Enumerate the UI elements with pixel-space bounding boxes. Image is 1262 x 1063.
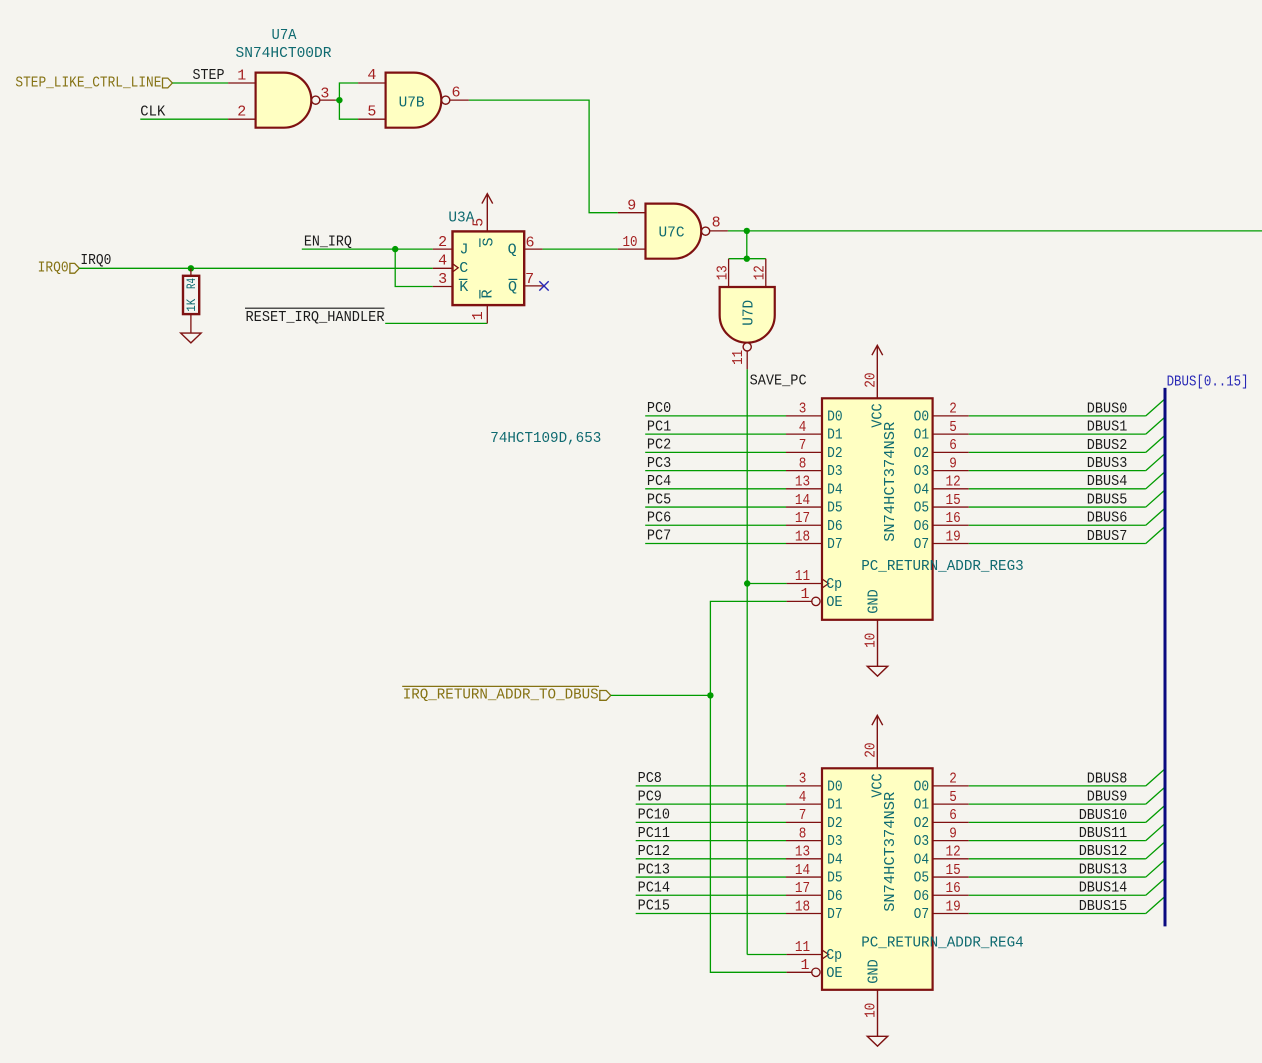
svg-text:O3: O3 xyxy=(914,833,930,850)
svg-text:O2: O2 xyxy=(914,815,930,832)
pin 11 of U7D xyxy=(746,351,748,369)
svg-text:13: 13 xyxy=(795,474,810,491)
pin 10 GND of PC_RETURN_ADDR_REG3 xyxy=(877,620,879,667)
svg-text:D3: D3 xyxy=(827,463,843,480)
svg-text:74HCT109D,653: 74HCT109D,653 xyxy=(490,430,601,447)
bus entry DBUS7 xyxy=(1146,527,1164,543)
svg-text:PC12: PC12 xyxy=(638,843,670,860)
bus entry DBUS1 xyxy=(1146,418,1164,434)
svg-text:O0: O0 xyxy=(914,409,930,426)
svg-text:3: 3 xyxy=(320,85,329,102)
svg-text:D1: D1 xyxy=(827,797,843,814)
svg-text:20: 20 xyxy=(863,743,880,758)
svg-text:D3: D3 xyxy=(827,833,843,850)
svg-text:6: 6 xyxy=(452,85,461,102)
svg-text:DBUS4: DBUS4 xyxy=(1087,473,1128,490)
svg-text:D1: D1 xyxy=(827,427,843,444)
wire U7D input bracket xyxy=(729,258,766,260)
wire DBUS13 xyxy=(969,876,1146,878)
wire DBUS2 xyxy=(969,451,1146,453)
svg-text:D4: D4 xyxy=(827,851,843,868)
wire Q to U7C pin 10 xyxy=(543,248,618,250)
svg-text:15: 15 xyxy=(946,862,961,879)
svg-text:RESET_IRQ_HANDLER: RESET_IRQ_HANDLER xyxy=(246,309,385,326)
svg-text:19: 19 xyxy=(946,898,961,915)
svg-text:PC_RETURN_ADDR_REG4: PC_RETURN_ADDR_REG4 xyxy=(861,934,1024,951)
pin 2 O0 of PC_RETURN_ADDR_REG3 xyxy=(933,415,969,417)
pin 5 O1 of PC_RETURN_ADDR_REG4 xyxy=(933,803,969,805)
svg-text:DBUS[0..15]: DBUS[0..15] xyxy=(1167,373,1249,390)
nand gate U7A xyxy=(256,73,312,128)
pin 4 D1 of PC_RETURN_ADDR_REG4 xyxy=(786,803,822,805)
pin 3 D0 of PC_RETURN_ADDR_REG4 xyxy=(786,785,822,787)
pin 7 Qbar of U3A xyxy=(524,285,542,287)
wire PC12 xyxy=(636,858,786,860)
svg-text:PC6: PC6 xyxy=(647,509,671,526)
pin 9 O3 of PC_RETURN_ADDR_REG3 xyxy=(933,470,969,472)
wire OE branch up to reg3 xyxy=(710,601,786,695)
wire DBUS14 xyxy=(969,894,1146,896)
pin 7 D2 of PC_RETURN_ADDR_REG4 xyxy=(786,821,822,823)
pin 2 O0 of PC_RETURN_ADDR_REG4 xyxy=(933,785,969,787)
svg-text:9: 9 xyxy=(627,198,636,215)
wire DBUS0 xyxy=(969,415,1146,417)
svg-text:DBUS3: DBUS3 xyxy=(1087,455,1128,472)
wire IRQ0 to pin C xyxy=(79,267,433,269)
svg-text:SAVE_PC: SAVE_PC xyxy=(750,372,807,389)
svg-text:4: 4 xyxy=(438,253,447,270)
svg-text:PC15: PC15 xyxy=(638,898,670,915)
wire DBUS8 xyxy=(969,785,1146,787)
junction U7D inputs xyxy=(744,256,750,262)
svg-text:Cp: Cp xyxy=(826,576,842,593)
svg-text:7: 7 xyxy=(525,271,534,288)
svg-text:PC5: PC5 xyxy=(647,491,671,508)
junction IRQ0 R4 xyxy=(188,265,194,271)
wire DBUS11 xyxy=(969,840,1146,842)
wire DBUS1 xyxy=(969,433,1146,435)
pin 16 O6 of PC_RETURN_ADDR_REG3 xyxy=(933,524,969,526)
pin 1 OE of PC_RETURN_ADDR_REG4 xyxy=(787,971,813,973)
svg-text:6: 6 xyxy=(525,234,534,251)
pin 9 of U7C xyxy=(618,212,646,214)
svg-text:1K: 1K xyxy=(184,299,199,312)
svg-text:GND: GND xyxy=(866,959,883,984)
pin 2 of U7A xyxy=(228,118,256,120)
svg-text:Cp: Cp xyxy=(826,947,842,964)
svg-text:13: 13 xyxy=(714,265,731,280)
svg-text:3: 3 xyxy=(799,401,807,418)
wire DBUS7 xyxy=(969,543,1146,545)
svg-text:O2: O2 xyxy=(914,445,930,462)
svg-text:11: 11 xyxy=(795,568,810,585)
pin 18 D7 of PC_RETURN_ADDR_REG4 xyxy=(786,913,822,915)
junction EN_IRQ xyxy=(392,246,398,252)
svg-text:1: 1 xyxy=(800,957,809,974)
svg-text:OE: OE xyxy=(826,594,843,611)
svg-text:IRQ0: IRQ0 xyxy=(80,252,111,269)
bus entry DBUS10 xyxy=(1146,806,1164,822)
wire to U7B pin 5 xyxy=(339,100,358,119)
svg-text:EN_IRQ: EN_IRQ xyxy=(304,234,352,251)
svg-text:J: J xyxy=(460,241,469,258)
wire PC5 xyxy=(645,506,786,508)
pin 4 C of U3A xyxy=(433,267,453,269)
svg-text:O5: O5 xyxy=(914,870,930,887)
wire EN_IRQ branch to pin K xyxy=(395,249,433,286)
pin 4 D1 of PC_RETURN_ADDR_REG3 xyxy=(786,433,822,435)
svg-text:D0: D0 xyxy=(827,779,843,796)
wire DBUS5 xyxy=(969,506,1146,508)
bus entry DBUS13 xyxy=(1146,861,1164,877)
wire EN_IRQ xyxy=(302,248,433,250)
svg-text:12: 12 xyxy=(946,844,961,861)
pin 2 J of U3A xyxy=(433,248,453,250)
wire IRQ_RETURN_ADDR_TO_DBUS xyxy=(611,694,711,696)
svg-text:2: 2 xyxy=(438,234,447,251)
pin 10 GND of PC_RETURN_ADDR_REG4 xyxy=(877,990,879,1037)
bus entry DBUS11 xyxy=(1146,824,1164,840)
svg-text:DBUS13: DBUS13 xyxy=(1079,861,1128,878)
pin 8 D3 of PC_RETURN_ADDR_REG3 xyxy=(786,470,822,472)
svg-text:D7: D7 xyxy=(827,536,843,553)
svg-text:17: 17 xyxy=(795,510,810,527)
pin 20 VCC of PC_RETURN_ADDR_REG3 xyxy=(872,345,883,398)
svg-text:PC1: PC1 xyxy=(647,418,671,435)
svg-text:12: 12 xyxy=(946,474,961,491)
svg-text:U7D: U7D xyxy=(741,300,758,326)
svg-text:14: 14 xyxy=(795,862,810,879)
pin 12 O4 of PC_RETURN_ADDR_REG4 xyxy=(933,858,969,860)
bus entry DBUS8 xyxy=(1146,770,1164,786)
svg-text:14: 14 xyxy=(795,492,810,509)
pin 20 VCC of PC_RETURN_ADDR_REG4 xyxy=(872,715,883,768)
svg-text:U7C: U7C xyxy=(659,224,685,241)
pin 17 D6 of PC_RETURN_ADDR_REG4 xyxy=(786,894,822,896)
pin 14 D5 of PC_RETURN_ADDR_REG4 xyxy=(786,876,822,878)
svg-text:15: 15 xyxy=(946,492,961,509)
svg-text:R: R xyxy=(480,289,497,298)
svg-text:VCC: VCC xyxy=(869,403,886,428)
svg-text:10: 10 xyxy=(623,234,638,251)
svg-text:SN74HCT00DR: SN74HCT00DR xyxy=(236,45,332,62)
svg-text:Q: Q xyxy=(508,241,517,258)
pin 18 D7 of PC_RETURN_ADDR_REG3 xyxy=(786,543,822,545)
wire PC6 xyxy=(645,524,786,526)
nand gate U7B xyxy=(386,73,442,128)
bus entry DBUS0 xyxy=(1146,400,1164,416)
svg-text:17: 17 xyxy=(795,880,810,897)
svg-text:O4: O4 xyxy=(914,481,930,498)
wire PC7 xyxy=(645,543,786,545)
bus entry DBUS6 xyxy=(1146,509,1164,525)
svg-text:10: 10 xyxy=(863,633,880,648)
wire PC8 xyxy=(636,785,786,787)
svg-text:2: 2 xyxy=(949,771,957,788)
wire STEP xyxy=(172,82,228,84)
svg-text:PC14: PC14 xyxy=(638,879,670,896)
wire DBUS3 xyxy=(969,470,1146,472)
svg-text:VCC: VCC xyxy=(869,773,886,798)
svg-text:OE: OE xyxy=(826,965,843,982)
wire to reg4 Cp pin xyxy=(747,954,786,956)
svg-text:12: 12 xyxy=(752,265,769,280)
wire PC2 xyxy=(645,451,786,453)
svg-text:STEP: STEP xyxy=(193,67,225,84)
wire PC13 xyxy=(636,876,786,878)
svg-text:O6: O6 xyxy=(914,888,930,905)
svg-text:18: 18 xyxy=(795,528,810,545)
wire U7C output to right edge xyxy=(728,230,1262,232)
svg-text:D5: D5 xyxy=(827,870,843,887)
svg-text:IRQ_RETURN_ADDR_TO_DBUS: IRQ_RETURN_ADDR_TO_DBUS xyxy=(403,687,599,704)
svg-text:6: 6 xyxy=(949,807,957,824)
pin 6 O2 of PC_RETURN_ADDR_REG3 xyxy=(933,451,969,453)
pin 15 O5 of PC_RETURN_ADDR_REG3 xyxy=(933,506,969,508)
pin 8 of U7C xyxy=(710,230,728,232)
wire PC10 xyxy=(636,821,786,823)
nand gate U7D xyxy=(720,287,775,343)
pin 14 D5 of PC_RETURN_ADDR_REG3 xyxy=(786,506,822,508)
junction at reg3 Cp xyxy=(744,580,750,586)
svg-text:5: 5 xyxy=(949,419,957,436)
bus entry DBUS5 xyxy=(1146,491,1164,507)
wire PC4 xyxy=(645,488,786,490)
svg-text:8: 8 xyxy=(799,455,807,472)
wire PC11 xyxy=(636,840,786,842)
svg-text:D2: D2 xyxy=(827,445,843,462)
pin 13 D4 of PC_RETURN_ADDR_REG3 xyxy=(786,488,822,490)
junction U7C output xyxy=(744,228,750,234)
svg-text:3: 3 xyxy=(438,271,447,288)
wire U7A output xyxy=(336,99,340,101)
pin 4 of U7B xyxy=(358,82,386,84)
svg-text:13: 13 xyxy=(795,844,810,861)
pin 11 Cp of PC_RETURN_ADDR_REG3 xyxy=(787,583,822,585)
svg-text:DBUS5: DBUS5 xyxy=(1087,491,1128,508)
svg-text:STEP_LIKE_CTRL_LINE: STEP_LIKE_CTRL_LINE xyxy=(15,74,161,91)
svg-text:DBUS8: DBUS8 xyxy=(1087,770,1128,787)
svg-text:D6: D6 xyxy=(827,518,843,535)
svg-text:5: 5 xyxy=(367,103,376,120)
svg-text:8: 8 xyxy=(712,214,721,231)
pin 13 of U7D xyxy=(728,259,730,287)
svg-text:D2: D2 xyxy=(827,815,843,832)
wire DBUS12 xyxy=(969,858,1146,860)
pin 1 OE of PC_RETURN_ADDR_REG3 xyxy=(787,600,813,602)
junction U7A output xyxy=(336,97,342,103)
svg-text:D6: D6 xyxy=(827,888,843,905)
svg-text:DBUS14: DBUS14 xyxy=(1079,880,1128,897)
svg-text:9: 9 xyxy=(949,455,957,472)
svg-text:S: S xyxy=(480,237,497,246)
svg-text:1: 1 xyxy=(800,586,809,603)
svg-text:5: 5 xyxy=(471,218,488,227)
nand gate U7C xyxy=(646,204,702,259)
wire RESET_IRQ_HANDLER to pin 1 xyxy=(385,322,487,324)
svg-text:O1: O1 xyxy=(914,427,930,444)
bus entry DBUS3 xyxy=(1146,454,1164,470)
pin 6 of U7B xyxy=(450,99,469,101)
pin 16 O6 of PC_RETURN_ADDR_REG4 xyxy=(933,894,969,896)
pin 3 D0 of PC_RETURN_ADDR_REG3 xyxy=(786,415,822,417)
pin 11 Cp of PC_RETURN_ADDR_REG4 xyxy=(787,954,822,956)
pin 13 D4 of PC_RETURN_ADDR_REG4 xyxy=(786,858,822,860)
svg-text:O0: O0 xyxy=(914,779,930,796)
pin 5 S of U3A with VCC arrow xyxy=(482,194,493,232)
wire DBUS15 xyxy=(969,913,1146,915)
bus entry DBUS4 xyxy=(1146,472,1164,488)
svg-text:9: 9 xyxy=(949,825,957,842)
pin 6 O2 of PC_RETURN_ADDR_REG4 xyxy=(933,821,969,823)
svg-text:3: 3 xyxy=(799,771,807,788)
svg-text:DBUS7: DBUS7 xyxy=(1087,528,1128,545)
svg-text:K: K xyxy=(459,279,468,296)
wire DBUS6 xyxy=(969,524,1146,526)
svg-text:4: 4 xyxy=(799,419,807,436)
svg-text:PC13: PC13 xyxy=(638,861,670,878)
svg-text:PC2: PC2 xyxy=(647,437,671,454)
wire PC15 xyxy=(636,913,786,915)
svg-text:DBUS10: DBUS10 xyxy=(1079,807,1128,824)
wire DBUS9 xyxy=(969,803,1146,805)
jk flip-flop U3A xyxy=(453,231,525,305)
svg-text:DBUS15: DBUS15 xyxy=(1079,898,1128,915)
junction OE branch xyxy=(707,692,713,698)
pin 3 K of U3A xyxy=(433,286,453,288)
svg-text:O5: O5 xyxy=(914,500,930,517)
pin 17 D6 of PC_RETURN_ADDR_REG3 xyxy=(786,524,822,526)
svg-text:U7A: U7A xyxy=(272,27,297,44)
svg-text:4: 4 xyxy=(367,67,376,84)
svg-text:20: 20 xyxy=(863,373,880,388)
svg-text:10: 10 xyxy=(863,1003,880,1018)
pin 5 of U7B xyxy=(358,118,386,120)
svg-text:11: 11 xyxy=(730,350,747,365)
svg-text:PC11: PC11 xyxy=(638,825,670,842)
svg-text:SN74HCT374NSR: SN74HCT374NSR xyxy=(882,792,899,912)
wire PC14 xyxy=(636,894,786,896)
svg-text:O7: O7 xyxy=(914,536,930,553)
register PC_RETURN_ADDR_REG4 xyxy=(822,768,933,990)
pin 12 of U7D xyxy=(765,259,767,287)
svg-text:C: C xyxy=(459,260,468,277)
svg-text:DBUS11: DBUS11 xyxy=(1079,825,1128,842)
pin 5 O1 of PC_RETURN_ADDR_REG3 xyxy=(933,433,969,435)
svg-text:DBUS2: DBUS2 xyxy=(1087,437,1128,454)
register PC_RETURN_ADDR_REG3 xyxy=(822,398,933,620)
pin 1 R of U3A xyxy=(486,305,488,323)
svg-text:PC4: PC4 xyxy=(647,473,671,490)
svg-text:4: 4 xyxy=(799,789,807,806)
svg-text:U7B: U7B xyxy=(399,94,425,111)
svg-text:O7: O7 xyxy=(914,906,930,923)
svg-text:D4: D4 xyxy=(827,481,843,498)
svg-text:DBUS6: DBUS6 xyxy=(1087,510,1128,527)
svg-text:5: 5 xyxy=(949,789,957,806)
svg-text:O4: O4 xyxy=(914,851,930,868)
wire PC9 xyxy=(636,803,786,805)
svg-text:PC9: PC9 xyxy=(638,788,662,805)
bus entry DBUS14 xyxy=(1146,879,1164,895)
wire PC3 xyxy=(645,470,786,472)
svg-text:D7: D7 xyxy=(827,906,843,923)
bus entry DBUS9 xyxy=(1146,788,1164,804)
pin 19 O7 of PC_RETURN_ADDR_REG3 xyxy=(933,543,969,545)
resistor R4 xyxy=(190,268,192,276)
svg-text:1: 1 xyxy=(470,311,487,320)
wire SAVE_PC vertical xyxy=(746,369,748,954)
svg-text:O6: O6 xyxy=(914,518,930,535)
wire to U7B pin 4 xyxy=(339,83,358,100)
svg-text:D5: D5 xyxy=(827,500,843,517)
svg-text:PC3: PC3 xyxy=(647,455,671,472)
svg-text:CLK: CLK xyxy=(140,103,165,120)
svg-text:PC7: PC7 xyxy=(647,528,671,545)
bus DBUS[0..15] xyxy=(1164,388,1167,927)
svg-text:PC8: PC8 xyxy=(638,770,662,787)
svg-text:DBUS1: DBUS1 xyxy=(1087,419,1128,436)
svg-text:2: 2 xyxy=(237,104,246,121)
pin 1 of U7A xyxy=(228,82,256,84)
svg-text:1: 1 xyxy=(237,68,246,85)
svg-text:O3: O3 xyxy=(914,463,930,480)
wire CLK xyxy=(140,118,228,120)
wire PC1 xyxy=(645,433,786,435)
svg-text:Q: Q xyxy=(508,279,517,296)
svg-text:GND: GND xyxy=(866,589,883,614)
svg-text:11: 11 xyxy=(795,939,810,956)
pin 15 O5 of PC_RETURN_ADDR_REG4 xyxy=(933,876,969,878)
svg-text:PC_RETURN_ADDR_REG3: PC_RETURN_ADDR_REG3 xyxy=(861,558,1024,575)
pin 7 D2 of PC_RETURN_ADDR_REG3 xyxy=(786,451,822,453)
wire OE branch down to reg4 xyxy=(710,695,786,972)
svg-text:19: 19 xyxy=(946,528,961,545)
pin 3 of U7A xyxy=(320,99,336,101)
svg-text:16: 16 xyxy=(946,510,961,527)
pin 10 of U7C xyxy=(618,248,646,250)
svg-text:16: 16 xyxy=(946,880,961,897)
svg-text:7: 7 xyxy=(799,437,807,454)
svg-text:2: 2 xyxy=(949,401,957,418)
wire U7B output to U7C pin 9 xyxy=(469,100,618,213)
pin 8 D3 of PC_RETURN_ADDR_REG4 xyxy=(786,840,822,842)
bus entry DBUS2 xyxy=(1146,436,1164,452)
svg-text:O1: O1 xyxy=(914,797,930,814)
svg-text:PC0: PC0 xyxy=(647,400,671,417)
ground below PC_RETURN_ADDR_REG3 xyxy=(867,666,887,676)
svg-text:SN74HCT374NSR: SN74HCT374NSR xyxy=(882,422,899,542)
bus entry DBUS12 xyxy=(1146,842,1164,858)
no-connect on pin 7 xyxy=(539,281,548,290)
svg-text:18: 18 xyxy=(795,898,810,915)
svg-text:7: 7 xyxy=(799,807,807,824)
ground below PC_RETURN_ADDR_REG4 xyxy=(867,1036,887,1046)
wire down to U7D inputs xyxy=(746,231,748,259)
svg-text:PC10: PC10 xyxy=(638,807,670,824)
svg-text:IRQ0: IRQ0 xyxy=(38,259,69,276)
pin 19 O7 of PC_RETURN_ADDR_REG4 xyxy=(933,913,969,915)
wire PC0 xyxy=(645,415,786,417)
pin 6 Q of U3A xyxy=(524,248,542,250)
ground below R4 xyxy=(181,333,201,343)
svg-text:DBUS9: DBUS9 xyxy=(1087,789,1128,806)
wire to reg3 Cp pin xyxy=(747,583,786,585)
pin 12 O4 of PC_RETURN_ADDR_REG3 xyxy=(933,488,969,490)
pin 9 O3 of PC_RETURN_ADDR_REG4 xyxy=(933,840,969,842)
svg-text:8: 8 xyxy=(799,825,807,842)
svg-text:DBUS0: DBUS0 xyxy=(1087,400,1128,417)
